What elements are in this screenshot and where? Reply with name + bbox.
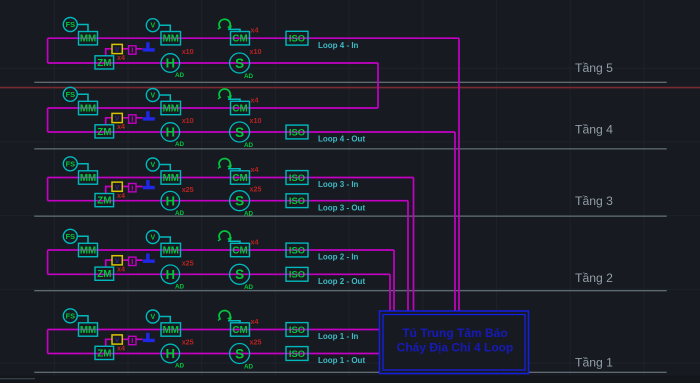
svg-text:x25: x25 — [182, 259, 194, 268]
svg-text:ISO: ISO — [289, 126, 305, 137]
svg-text:AD: AD — [244, 211, 254, 218]
svg-text:x4: x4 — [251, 95, 259, 104]
svg-text:AD: AD — [244, 363, 254, 370]
svg-text:MM: MM — [80, 104, 96, 115]
svg-text:x4: x4 — [251, 165, 259, 174]
svg-text:V: V — [150, 162, 155, 169]
svg-text:ISO: ISO — [289, 324, 305, 335]
svg-text:MM: MM — [163, 34, 179, 45]
svg-text:MM: MM — [163, 104, 179, 115]
svg-text:x4: x4 — [117, 122, 125, 131]
svg-text:x4: x4 — [117, 53, 125, 62]
svg-text:ISO: ISO — [289, 33, 305, 44]
svg-text:FS: FS — [66, 20, 76, 29]
svg-text:Loop 1 - In: Loop 1 - In — [318, 332, 359, 341]
svg-text:H: H — [166, 125, 175, 140]
svg-text:ISO: ISO — [289, 172, 305, 183]
svg-text:Tầng 4: Tầng 4 — [575, 122, 613, 136]
svg-text:AD: AD — [175, 210, 185, 217]
svg-text:Loop 2 - Out: Loop 2 - Out — [318, 277, 365, 286]
svg-text:Tầng 5: Tầng 5 — [575, 61, 613, 75]
svg-text:V: V — [150, 235, 155, 242]
svg-text:AD: AD — [244, 142, 254, 149]
svg-text:H: H — [166, 346, 175, 361]
svg-text:x10: x10 — [182, 116, 194, 125]
svg-text:CM: CM — [232, 246, 247, 257]
svg-text:H: H — [166, 56, 175, 71]
svg-text:I: I — [131, 257, 133, 266]
svg-text:I: I — [131, 46, 133, 55]
svg-text:ZM: ZM — [97, 58, 111, 69]
svg-text:I: I — [131, 183, 133, 192]
svg-text:ISO: ISO — [289, 269, 305, 280]
svg-text:ZM: ZM — [97, 269, 111, 280]
svg-text:ISO: ISO — [289, 244, 305, 255]
svg-text:AD: AD — [175, 141, 185, 148]
svg-text:Tầng 2: Tầng 2 — [575, 271, 613, 285]
svg-text:MM: MM — [80, 34, 96, 45]
svg-text:MM: MM — [80, 325, 96, 336]
svg-text:x10: x10 — [250, 47, 262, 56]
svg-text:MM: MM — [163, 246, 179, 257]
svg-text:MM: MM — [80, 173, 96, 184]
svg-text:V: V — [150, 314, 155, 321]
svg-text:x25: x25 — [250, 185, 262, 194]
svg-text:Loop 1 - Out: Loop 1 - Out — [318, 356, 365, 365]
svg-text:AD: AD — [244, 284, 254, 291]
svg-text:I: I — [131, 115, 133, 124]
svg-text:S: S — [235, 56, 244, 71]
svg-text:V: V — [150, 93, 155, 100]
svg-text:MM: MM — [80, 246, 96, 257]
svg-text:FS: FS — [66, 90, 76, 99]
svg-text:x25: x25 — [182, 185, 194, 194]
svg-text:ISO: ISO — [289, 195, 305, 206]
svg-text:x25: x25 — [182, 338, 194, 347]
svg-text:AD: AD — [175, 363, 185, 370]
svg-text:ZM: ZM — [97, 127, 111, 138]
svg-text:S: S — [235, 346, 244, 361]
svg-text:Loop 4 - In: Loop 4 - In — [318, 41, 359, 50]
svg-text:Tầng 1: Tầng 1 — [575, 355, 613, 369]
svg-text:S: S — [235, 267, 244, 282]
svg-text:x4: x4 — [251, 317, 259, 326]
svg-text:ZM: ZM — [97, 348, 111, 359]
svg-text:x25: x25 — [250, 338, 262, 347]
svg-text:V: V — [150, 23, 155, 30]
svg-text:FS: FS — [66, 311, 76, 320]
svg-text:x4: x4 — [117, 265, 125, 274]
svg-text:x10: x10 — [250, 116, 262, 125]
svg-text:FS: FS — [66, 232, 76, 241]
svg-text:x4: x4 — [117, 191, 125, 200]
svg-text:Loop 3 - In: Loop 3 - In — [318, 180, 359, 189]
svg-text:x4: x4 — [251, 26, 259, 35]
svg-text:ISO: ISO — [289, 348, 305, 359]
svg-text:H: H — [166, 193, 175, 208]
svg-text:Loop 2 - In: Loop 2 - In — [318, 253, 359, 262]
svg-text:Tầng 3: Tầng 3 — [575, 194, 613, 208]
svg-text:CM: CM — [232, 325, 247, 336]
svg-text:CM: CM — [232, 173, 247, 184]
svg-text:x10: x10 — [182, 47, 194, 56]
svg-text:S: S — [235, 194, 244, 209]
svg-text:AD: AD — [175, 72, 185, 79]
svg-text:Loop 4 - Out: Loop 4 - Out — [318, 135, 365, 144]
svg-text:Loop 3 - Out: Loop 3 - Out — [318, 203, 365, 212]
svg-text:AD: AD — [244, 73, 254, 80]
svg-text:Tủ Trung Tâm Báo: Tủ Trung Tâm Báo — [402, 326, 507, 340]
svg-text:Cháy Địa Chỉ 4 Loop: Cháy Địa Chỉ 4 Loop — [397, 341, 514, 355]
svg-text:AD: AD — [175, 284, 185, 291]
svg-text:H: H — [166, 267, 175, 282]
svg-text:CM: CM — [232, 104, 247, 115]
svg-text:MM: MM — [163, 325, 179, 336]
svg-text:I: I — [131, 336, 133, 345]
svg-text:MM: MM — [163, 173, 179, 184]
svg-text:S: S — [235, 125, 244, 140]
svg-text:x4: x4 — [117, 344, 125, 353]
svg-text:x4: x4 — [251, 237, 259, 246]
svg-text:ZM: ZM — [97, 196, 111, 207]
svg-text:CM: CM — [232, 34, 247, 45]
svg-text:FS: FS — [66, 159, 76, 168]
